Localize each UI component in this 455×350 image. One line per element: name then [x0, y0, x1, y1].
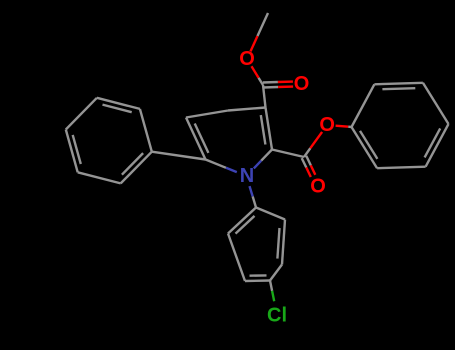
svg-text:N: N	[240, 165, 254, 187]
svg-text:O: O	[239, 48, 255, 70]
svg-text:O: O	[294, 73, 310, 95]
svg-text:Cl: Cl	[267, 304, 287, 326]
svg-text:O: O	[310, 175, 326, 197]
svg-text:O: O	[319, 114, 335, 136]
